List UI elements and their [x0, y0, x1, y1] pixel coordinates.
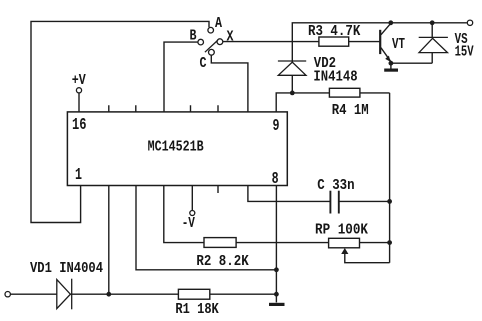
wire pin to row3 [136, 186, 276, 270]
wire A to top-left rail [31, 21, 209, 222]
wire top rail [292, 23, 467, 93]
wire C contact down to pin top [211, 55, 248, 112]
svg-text:16: 16 [72, 115, 87, 134]
capacitor C plates [330, 191, 338, 214]
svg-text:X: X [227, 29, 234, 46]
wire top pin stubs [109, 105, 218, 112]
RP wiper arrow [341, 248, 348, 254]
svg-text:R4 1M: R4 1M [332, 102, 369, 119]
svg-text:R3 4.7K: R3 4.7K [308, 23, 361, 40]
wire pin8 vertical to ground [275, 186, 277, 303]
switch arm [205, 40, 218, 52]
junction node row3/pin8 [274, 267, 279, 272]
terminal -V [190, 211, 195, 216]
wire pin to R2 row [164, 186, 390, 243]
junction node cap/right vertical [387, 199, 392, 204]
transistor VT [380, 23, 391, 62]
svg-text:R1 18K: R1 18K [175, 301, 219, 318]
wire -V stem [191, 186, 193, 211]
svg-text:C 33n: C 33n [317, 177, 354, 194]
resistor R2 body [204, 238, 236, 248]
wire right vertical [389, 93, 391, 263]
resistor R3 body [319, 37, 349, 46]
terminal VD1 left [5, 292, 10, 297]
switch contact A [208, 27, 214, 33]
svg-text:MC14521B: MC14521B [148, 139, 204, 156]
diode VD2 [278, 61, 306, 75]
wire C row right [340, 200, 390, 202]
switch contact C [209, 49, 215, 55]
svg-text:8: 8 [272, 169, 279, 188]
wire bottom pin stub [217, 186, 219, 194]
wire RP wiper [345, 251, 390, 263]
svg-text:A: A [215, 15, 222, 32]
wire B to pin top [164, 42, 198, 112]
svg-text:15V: 15V [455, 44, 474, 61]
svg-text:C: C [200, 55, 207, 72]
junction node VD1/pin [106, 292, 111, 297]
junction node pin9/VD2/R4 [290, 91, 295, 96]
IC U1 MC14521B [67, 112, 287, 186]
wire VS stems [431, 23, 433, 63]
svg-text:+V: +V [72, 72, 86, 89]
junction node R1/ground [274, 292, 279, 297]
svg-text:RP 100K: RP 100K [315, 222, 368, 239]
svg-text:VD1 IN4004: VD1 IN4004 [30, 260, 103, 277]
wire X row to transistor base [223, 41, 380, 43]
wire emitter row [391, 62, 432, 64]
svg-text:R2 8.2K: R2 8.2K [196, 253, 249, 270]
resistor R1 body [178, 289, 209, 299]
junction node RP/right vertical [387, 240, 392, 245]
switch pole X [217, 39, 223, 45]
wire emitter ground stem [390, 63, 392, 69]
junction node collector/rail [388, 20, 393, 25]
svg-text:1: 1 [75, 165, 82, 184]
ground (main) [269, 303, 285, 306]
svg-text:9: 9 [273, 116, 280, 135]
svg-text:B: B [190, 28, 197, 45]
resistor R4 body [329, 88, 360, 97]
svg-text:VT: VT [392, 36, 405, 53]
junction node VS/rail [430, 20, 435, 25]
wire pin9 to node and R4 row [276, 93, 389, 112]
wire pin to C row [248, 186, 330, 202]
junction node emitter [389, 61, 394, 66]
switch contact B [198, 39, 204, 45]
svg-text:-V: -V [182, 215, 196, 232]
wire R1 row [10, 293, 276, 295]
svg-text:IN4148: IN4148 [313, 69, 357, 86]
wire pin to R1 row [108, 186, 110, 295]
terminal top right [467, 20, 472, 25]
terminal +V [76, 88, 81, 93]
diode VD1 [57, 279, 72, 310]
potentiometer RP body [329, 238, 360, 248]
wire +V stem [78, 93, 80, 112]
ground (emitter) [384, 68, 398, 71]
zener VS [419, 37, 448, 52]
